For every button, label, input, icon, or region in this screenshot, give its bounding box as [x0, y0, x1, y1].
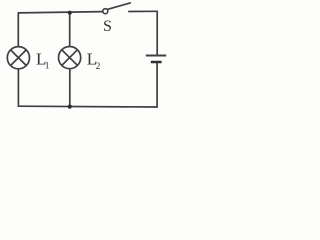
battery positive long plate [146, 55, 166, 57]
wire bottom rail [18, 105, 157, 108]
wire right side lower (battery down to bottom-right corner) [156, 62, 158, 107]
wire left side upper (top-left corner down to lamp L1) [17, 13, 19, 47]
wire left side lower (lamp L1 down to bottom rail) [17, 69, 19, 106]
lamp L2 (circle with X) [59, 47, 81, 69]
lamp L1 (circle with X) [7, 47, 29, 69]
svg-text:L2: L2 [87, 50, 101, 72]
wire L2 branch lower (lamp L2 down to bottom junction) [69, 69, 71, 107]
battery negative short plate [151, 61, 162, 64]
svg-text:S: S [103, 18, 112, 35]
svg-text:L1: L1 [36, 50, 50, 72]
wire right side upper (top-right corner down to battery) [156, 11, 158, 55]
wire L2 branch upper (top junction down to lamp L2) [69, 13, 71, 47]
switch S lever arm (open) [108, 3, 131, 9]
wire top rail left (from top-left corner to switch pivot) [18, 12, 103, 13]
node junction top (dot) [68, 11, 72, 15]
node junction bottom (dot) [68, 105, 72, 109]
wire top rail right (switch contact to top-right corner) [129, 10, 157, 12]
switch S pivot circle [103, 9, 108, 14]
